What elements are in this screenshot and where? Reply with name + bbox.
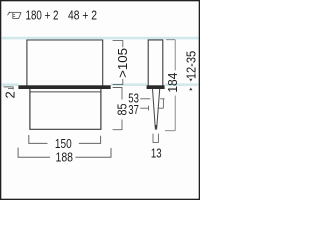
svg-text:150: 150 — [55, 136, 72, 151]
svg-text:12-35: 12-35 — [184, 51, 199, 79]
svg-text:13: 13 — [151, 146, 162, 161]
svg-text:85: 85 — [114, 104, 129, 116]
svg-text:184: 184 — [165, 73, 180, 93]
svg-text:188: 188 — [56, 150, 74, 165]
svg-text:180 + 2: 180 + 2 — [26, 8, 59, 23]
svg-text:37: 37 — [128, 103, 139, 117]
svg-text:2: 2 — [3, 91, 18, 98]
svg-text:48 + 2: 48 + 2 — [68, 8, 97, 23]
svg-text:>105: >105 — [115, 48, 130, 78]
